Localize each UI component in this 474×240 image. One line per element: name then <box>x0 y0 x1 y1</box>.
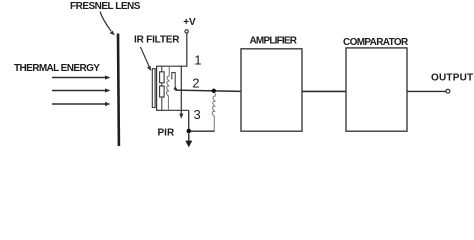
sensing element middle lead <box>161 83 163 86</box>
sensing element lead top <box>161 66 163 72</box>
PIR case pin arrowhead <box>179 114 183 119</box>
pin 2 wire to amplifier <box>175 90 241 91</box>
svg-text:IR FILTER: IR FILTER <box>134 35 180 46</box>
ground arrow <box>185 134 192 148</box>
wire amplifier to comparator <box>302 90 346 92</box>
FET element <box>172 73 175 87</box>
svg-text:2: 2 <box>192 76 199 91</box>
svg-text:PIR: PIR <box>158 128 175 139</box>
comparator block A2 <box>346 48 407 131</box>
pin 2 internal stub arrow <box>173 86 177 90</box>
+V terminal circle <box>185 30 188 33</box>
svg-text:AMPLIFIER: AMPLIFIER <box>250 36 298 47</box>
ground node dot <box>187 129 192 134</box>
svg-text:OUTPUT: OUTPUT <box>431 73 473 84</box>
svg-text:THERMAL ENERGY: THERMAL ENERGY <box>14 63 100 74</box>
leader arrow to IR filter window <box>141 47 152 71</box>
amplifier block A1 <box>241 49 302 131</box>
fresnel lens (vertical bar) <box>117 34 121 147</box>
leader arrow to fresnel lens <box>100 12 115 36</box>
svg-text:FRESNEL LENS: FRESNEL LENS <box>70 1 141 12</box>
junction node dot <box>212 89 216 93</box>
thermal energy arrow 1 <box>52 75 111 79</box>
PIR package body U1 <box>157 66 189 115</box>
pin 3 wire down <box>188 110 190 130</box>
output terminal circle <box>446 89 450 93</box>
wire comparator to output <box>407 90 446 92</box>
wire +V to pin 1 <box>186 33 188 66</box>
wire resistor bottom to ground node <box>189 130 215 132</box>
load resistor R1 <box>212 93 215 130</box>
sensing element lead bottom <box>161 97 163 110</box>
IR filter window plate <box>152 69 155 108</box>
thermal energy arrow 3 <box>52 102 111 106</box>
svg-text:COMPARATOR: COMPARATOR <box>343 37 409 48</box>
svg-text:+V: +V <box>183 17 196 28</box>
sensing element 1 <box>160 72 165 83</box>
svg-text:1: 1 <box>194 53 201 68</box>
svg-text:3: 3 <box>194 107 201 122</box>
sensing element 2 <box>160 86 165 97</box>
thermal energy arrow 2 <box>52 88 111 92</box>
internal resistor <box>166 66 169 110</box>
